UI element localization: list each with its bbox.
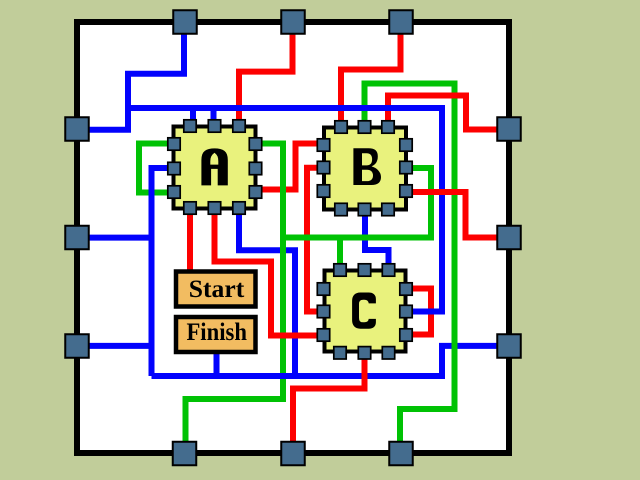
wire blue stub to A.top2 xyxy=(211,108,217,124)
wire red B.top3 to right-pad1 xyxy=(388,96,498,130)
pad top 3 xyxy=(389,10,413,34)
wire red A.bottom1 to Start xyxy=(187,212,193,272)
pad left 2 xyxy=(65,226,89,250)
pad bottom 1 xyxy=(173,442,197,466)
wire green branch to B.right2 xyxy=(280,168,431,238)
wire blue Finish stub xyxy=(214,352,220,376)
wire red A.right3 to B.left1 xyxy=(256,144,320,190)
svg-text:Finish: Finish xyxy=(186,319,247,346)
wire blue left riser to A.left2 xyxy=(152,168,171,376)
chip B body xyxy=(324,128,406,210)
wire blue right-pad3 to bottom bus xyxy=(152,346,499,376)
wire red top-pad2 to A.top3 xyxy=(239,32,293,126)
pad bottom 2 xyxy=(281,442,305,466)
pad left 3 xyxy=(65,334,89,358)
wire blue A.bottom3 down xyxy=(239,212,295,376)
pad bottom 3 xyxy=(389,442,413,466)
pad right 2 xyxy=(497,226,521,250)
wire green B.top2 long loop to bottom-pad3 xyxy=(365,84,455,445)
wire red C right U xyxy=(410,289,431,335)
wire blue top bus to C.right2 xyxy=(125,108,442,312)
wire blue top-pad1 to left-pad1 xyxy=(88,32,184,130)
Start button xyxy=(176,272,256,307)
wire red bottom-pad2 to C.bottom2 xyxy=(293,356,365,444)
border pads xyxy=(65,10,521,465)
wire green U left of A xyxy=(139,144,170,193)
chip C pins xyxy=(317,264,412,359)
pad right 1 xyxy=(497,117,521,141)
wire green stub to C.top1 xyxy=(337,238,343,271)
chip B label xyxy=(353,148,381,185)
wire blue left-pad2 stub xyxy=(88,235,154,241)
wire blue left-pad3 stub xyxy=(88,343,154,349)
wire green A.right1 trunk to bottom-pad1 xyxy=(186,144,284,445)
wire red B.right3 to right-pad2 xyxy=(410,192,498,238)
Finish button xyxy=(176,317,256,352)
wire red top-pad3 to B.top1 xyxy=(341,32,401,128)
wire red A.bottom2 to C.left3 xyxy=(215,212,321,336)
svg-text:Start: Start xyxy=(189,276,245,303)
pad left 1 xyxy=(65,117,89,141)
wire blue B.bottom2 to C.top3 xyxy=(365,212,389,272)
chip A body xyxy=(174,127,256,209)
chip C label xyxy=(352,293,376,329)
pad top 1 xyxy=(173,10,197,34)
chip A pins xyxy=(168,120,262,214)
wire blue stub to A.top1 xyxy=(190,108,196,124)
pad top 2 xyxy=(281,10,305,34)
chip B pins xyxy=(317,121,412,216)
chip C body xyxy=(325,271,406,352)
pad right 3 xyxy=(497,334,521,358)
chip A label xyxy=(201,148,227,185)
board xyxy=(77,22,509,453)
wire red B.left2 to C.left2 xyxy=(307,168,320,312)
